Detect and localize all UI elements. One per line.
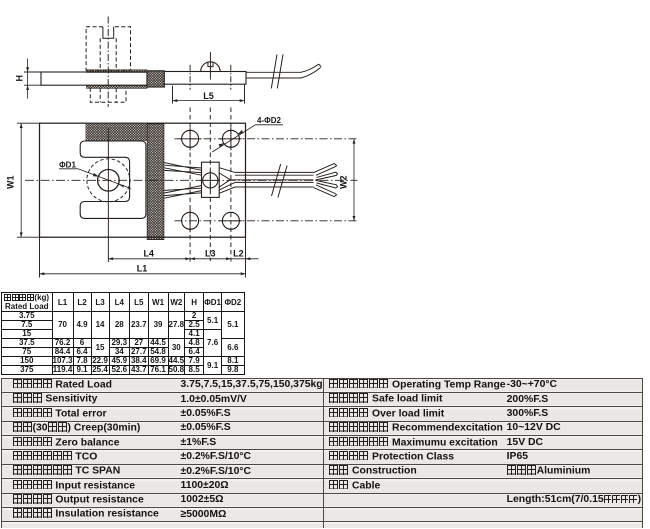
svg-text:L3: L3	[205, 249, 216, 259]
svg-text:L4: L4	[143, 249, 154, 259]
svg-text:H: H	[14, 75, 24, 82]
svg-text:4-ΦD2: 4-ΦD2	[257, 116, 281, 125]
svg-text:L2: L2	[233, 249, 244, 259]
svg-text:L5: L5	[203, 91, 214, 101]
svg-text:ΦD1: ΦD1	[59, 161, 76, 170]
svg-text:W2: W2	[338, 176, 348, 190]
svg-text:L1: L1	[137, 264, 148, 274]
svg-text:W1: W1	[6, 176, 16, 190]
